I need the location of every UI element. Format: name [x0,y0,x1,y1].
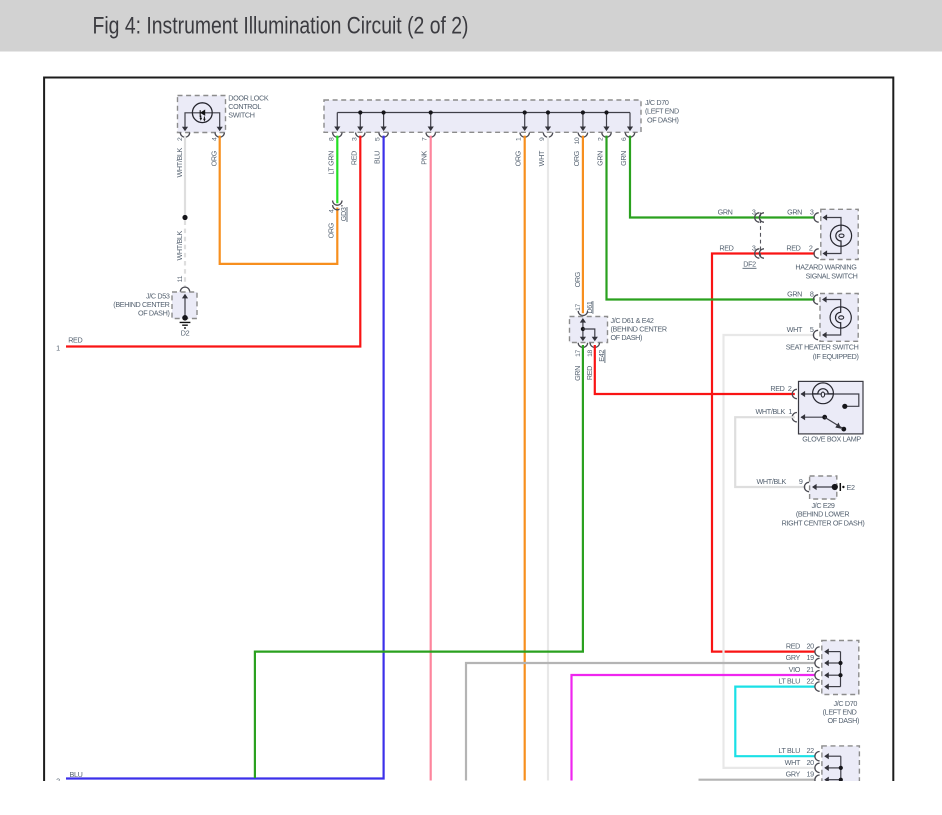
wire LT BLU from lower J/C D70 pin 22 to pin 22 [735,687,815,757]
J/C E29 internal line [813,486,834,488]
svg-text:RED: RED [770,384,784,393]
hazard internal wires [824,218,842,254]
svg-text:11: 11 [177,275,184,282]
wire GRY to lowest J/C D70 pin 19 [699,779,815,781]
wire GRN from J/C D70 pin 6 to hazard switch [630,136,815,218]
wire GRN from J/C D61 pin 17 [255,345,583,778]
svg-text:5: 5 [375,137,382,141]
hazard pin 3 arc [814,213,819,222]
svg-text:9: 9 [539,137,546,141]
svg-text:GRN: GRN [573,366,582,381]
DF2 arcs on RED [755,249,760,258]
svg-text:ORG: ORG [326,222,335,238]
svg-text:J/C D70: J/C D70 [645,98,669,107]
svg-text:19: 19 [807,770,815,779]
svg-text:7: 7 [422,137,429,141]
svg-text:BLU: BLU [70,770,83,779]
pin 9 connector arc [543,133,552,138]
wire WHT from J/C D70 pin 9 [547,136,549,781]
svg-text:GRN: GRN [787,208,802,217]
ground dot D2 [182,315,188,321]
svg-text:8: 8 [810,290,814,299]
junction box J/C D70 (lower, left end of dash) [822,641,859,695]
pin 3 connector arc [356,133,365,138]
svg-text:1: 1 [516,137,523,141]
svg-text:WHT: WHT [537,150,546,166]
svg-text:WHT/BLK: WHT/BLK [175,147,184,177]
svg-text:3: 3 [752,244,756,253]
DF2 arcs on GRN [755,213,760,222]
svg-text:10: 10 [574,137,581,144]
J/C D70 pin 9 drop [547,113,549,127]
seat heater lamp circle [830,307,851,328]
svg-text:17: 17 [575,303,582,310]
svg-text:2: 2 [809,244,813,253]
lower J/C D70 pin 22 line [825,686,841,688]
lower J/C D70 pin 19 line [825,662,841,664]
svg-text:RED: RED [786,244,800,253]
pin 10 connector arc [578,133,587,138]
svg-text:22: 22 [807,746,815,755]
J/C D70 pin 5 drop [383,113,385,127]
svg-text:4: 4 [328,209,335,213]
door lock pin 2 arc [180,133,189,138]
svg-text:SEAT HEATER SWITCH: SEAT HEATER SWITCH [786,343,859,352]
J/C D61 pin 17 connector arc [578,311,587,316]
svg-text:(LEFT END: (LEFT END [645,107,679,116]
svg-text:OF DASH): OF DASH) [611,333,643,342]
lowest J/C D70 bus dot 19 [839,778,843,782]
J/C D70 pin 8 drop [336,113,338,127]
seat pin 8 arc [813,295,818,304]
J/C D61 arrow up [580,318,586,323]
svg-text:GRN: GRN [619,151,628,166]
svg-text:HAZARD WARNING: HAZARD WARNING [795,263,857,272]
J/C D61 internal branch [583,329,595,337]
svg-text:SIGNAL SWITCH: SIGNAL SWITCH [806,271,858,280]
J/C D61 internal junction dot [581,327,585,331]
glove pin 2 arc [792,389,797,398]
seat heater switch (if equipped) [820,294,858,342]
lower J/C D70 bus dot 19 [838,661,842,665]
pin 1 connector arc [520,133,529,138]
J/C E29 ground dot [832,484,838,490]
svg-text:RIGHT CENTER OF DASH): RIGHT CENTER OF DASH) [782,518,865,527]
pin 6 connector arc [625,133,634,138]
svg-text:ORG: ORG [514,150,523,166]
seat heater internal wires [823,300,841,336]
glove box switch blade [825,417,844,429]
svg-text:18: 18 [587,349,594,356]
svg-text:ORG: ORG [573,271,582,287]
svg-text:6: 6 [621,137,628,141]
lowest J/C D70 bus dot 20 [839,766,843,770]
J/C E42 pin 18 bottom arc [590,343,599,348]
junction box J/C D61 &amp; E42 (behind center of dash) [570,317,608,343]
wire RED from J/C E42 pin 18 to glove box lamp [595,345,795,394]
J/C D70 pin 2 drop [606,113,608,127]
wire VIO to lower J/C D70 pin 21 [572,675,815,781]
junction dot on WHT/BLK [182,215,187,220]
svg-text:GRY: GRY [786,770,801,779]
glove box switch line [801,416,825,418]
door lock switch key symbol [200,110,205,116]
svg-text:5: 5 [810,325,814,334]
bus junction [581,110,585,114]
svg-text:1: 1 [56,343,60,352]
lowest J/C D70 pin 22 arc [815,752,820,761]
hazard lamp filament [836,225,841,246]
wire PNK from J/C D70 pin 7 [430,136,432,781]
svg-text:GRN: GRN [596,151,605,166]
bus junction [358,110,362,114]
lowest J/C D70 pin 20 line [825,767,841,769]
svg-text:WHT: WHT [787,325,803,334]
svg-text:GRN: GRN [787,290,802,299]
J/C D53 pin 11 connector arc [180,287,189,292]
in-line connector DF2 dashed line [760,213,762,259]
svg-text:RED: RED [585,366,594,380]
svg-text:RED: RED [68,335,82,344]
J/C D70 pin 3 drop [359,113,361,127]
svg-text:2: 2 [56,776,60,785]
J/C D70 pin 7 drop [430,113,432,127]
svg-text:(BEHIND LOWER: (BEHIND LOWER [796,510,850,519]
wire BLU from J/C D70 pin 5 to left edge [66,136,384,779]
glove box lamp [799,381,864,434]
svg-text:3: 3 [810,208,814,217]
wire RED from J/C D70 pin 3 to left edge [66,136,360,347]
wire RED from hazard switch pin 2 to lower J/C D70 pin 20 [712,254,815,652]
lower J/C D70 pin 20 arc [815,647,820,656]
glove box lamp circle [813,383,834,404]
svg-text:ORG: ORG [210,150,219,166]
lower J/C D70 pin 19 arc [815,658,820,667]
ground symbol D2 [180,322,191,328]
door lock control switch S1 [178,96,226,133]
seat heater lamp filament [836,307,841,328]
svg-text:(IF EQUIPPED): (IF EQUIPPED) [813,352,859,361]
svg-text:22: 22 [807,677,815,686]
svg-text:WHT/BLK: WHT/BLK [756,407,786,416]
svg-text:RED: RED [349,151,358,165]
designator GD3 [340,206,347,222]
bus junction [546,110,550,114]
svg-text:9: 9 [799,477,803,486]
svg-text:E2: E2 [847,483,855,492]
hazard pin 2 arrow [823,250,828,256]
svg-text:3: 3 [752,208,756,217]
wire WHT from seat heater pin 5 to lower J/C D70 pin 20 [724,335,815,768]
svg-text:D2: D2 [181,329,190,338]
svg-text:21: 21 [807,665,815,674]
svg-text:DF2: DF2 [743,260,756,269]
glove box lamp wire through [801,394,859,406]
svg-text:3: 3 [351,137,358,141]
lower J/C D70 pin 20 line [825,651,841,653]
door lock pin 4 arrow [217,127,223,132]
glove pin 2 arrow [801,391,806,397]
J/C D70 pin 1 drop [524,113,526,127]
lower J/C D70 pin 21 arc [815,671,820,680]
wire ORG from door lock pin 4 to GD3 [220,136,338,264]
svg-text:WHT/BLK: WHT/BLK [757,477,787,486]
hazard lamp circle [830,225,851,246]
J/C D61 arrow down left [580,337,586,342]
J/C D70 pin 6 drop [629,113,631,127]
J/C E42 arrow down right [592,337,598,342]
svg-text:1: 1 [788,407,792,416]
wire GRN from J/C D70 pin 2 to seat heater switch [607,136,815,300]
seat pin 5 arrow [822,332,827,338]
svg-text:2: 2 [788,384,792,393]
junction box J/C E29 (behind lower right center of dash) [810,476,837,499]
lower J/C D70 pin 21 line [825,674,841,676]
glove box switch end dot [841,427,846,432]
svg-text:VIO: VIO [789,665,801,674]
svg-text:OF DASH): OF DASH) [647,115,679,124]
lowest J/C D70 internal bus [840,756,842,780]
svg-text:LT BLU: LT BLU [778,746,800,755]
seat pin 8 arrow [822,296,827,302]
bus junction [523,110,527,114]
svg-text:GD3: GD3 [339,207,348,221]
svg-text:GLOVE BOX LAMP: GLOVE BOX LAMP [802,435,861,444]
svg-text:4: 4 [212,137,219,141]
svg-text:Fig 4: Instrument Illumination: Fig 4: Instrument Illumination Circuit (… [93,13,469,40]
J/C D53 arrow up [182,294,188,299]
wire ORG from J/C D70 pin 1 [524,136,526,781]
lowest J/C D70 pin 19 line [825,779,841,781]
hazard pin 3 arrow [823,214,828,220]
door lock switch circle [192,103,212,123]
svg-text:WHT/BLK: WHT/BLK [175,230,184,260]
lowest J/C D70 pin 20 arc [815,763,820,772]
svg-text:GRY: GRY [786,653,801,662]
wire WHT/BLK from glove box lamp to J/C E29 [735,417,806,487]
bus junction [604,110,608,114]
glove pin 1 arrow [801,414,806,420]
J/C E29 arrow left [812,484,817,490]
svg-text:ORG: ORG [572,150,581,166]
J/C D70 internal bus [337,112,630,114]
hazard pin 2 arc [814,249,819,258]
junction box J/C D53 (behind center of dash) [172,292,197,319]
svg-text:WHT: WHT [785,758,801,767]
J/C D53 internal line [184,298,186,318]
glove box switch pivot dot [822,415,827,420]
svg-text:OF DASH): OF DASH) [138,308,170,317]
pin 8 connector arc [333,133,342,138]
svg-text:LT BLU: LT BLU [778,677,800,686]
bus junction [382,110,386,114]
wire LT GRN from J/C D70 pin 8 [336,136,338,204]
J/C D70 pin 10 drop [582,113,584,127]
J/C E29 pin 9 arc [804,482,809,491]
svg-text:RED: RED [719,244,733,253]
J/C D61 internal line vertical [582,322,584,338]
designator D61 [584,301,592,315]
svg-text:OF DASH): OF DASH) [827,716,859,725]
svg-text:BLU: BLU [373,151,382,164]
svg-text:LT GRN: LT GRN [326,151,335,175]
J/C D61 pin 17 bottom arc [578,343,587,348]
svg-text:20: 20 [807,642,815,651]
svg-text:20: 20 [807,758,815,767]
junction box J/C D70 (top, left end of dash) [324,100,641,132]
seat pin 5 arc [813,330,818,339]
lower J/C D70 internal bus [840,652,842,687]
designator E42 [596,349,604,363]
glove pin 1 arc [792,413,797,422]
pin 7 connector arc [426,133,435,138]
glove box lamp contact dot [842,404,847,409]
header bar [0,0,942,52]
door lock switch internal wire [185,113,220,127]
lower J/C D70 bus dot 21 [838,673,842,677]
door lock pin 2 arrow [182,127,188,132]
wire GRY to lower J/C D70 pin 19 [466,663,815,781]
svg-text:GRN: GRN [718,208,733,217]
door lock pin 4 arc [215,133,224,138]
lowest J/C D70 pin 22 line [825,755,841,757]
diagram frame border [44,78,893,782]
svg-text:RED: RED [786,642,800,651]
svg-text:17: 17 [575,349,582,356]
hazard warning signal switch [821,209,858,259]
glove box lamp filament [813,389,834,394]
wire WHT/BLK dashed continuation to J/C D53 [184,221,186,288]
pin 2 connector arc [602,133,611,138]
pin 5 connector arc [379,133,388,138]
lowest J/C D70 pin 19 arc [815,775,820,784]
wire ORG from J/C D70 pin 10 to J/C D61 [582,136,584,314]
in-line connector GD3 arcs [333,201,342,206]
wire WHT/BLK from door lock pin 2 [184,136,186,216]
svg-text:SWITCH: SWITCH [228,111,254,120]
junction box J/C D70 (lowest, clipped) [822,746,860,796]
lower J/C D70 pin 22 arc [815,682,820,691]
svg-text:2: 2 [177,137,184,141]
E2 terminal bar [839,483,841,491]
svg-text:19: 19 [807,653,815,662]
bus junction [429,110,433,114]
svg-text:PNK: PNK [420,150,429,164]
svg-text:8: 8 [328,137,335,141]
svg-text:2: 2 [598,137,605,141]
